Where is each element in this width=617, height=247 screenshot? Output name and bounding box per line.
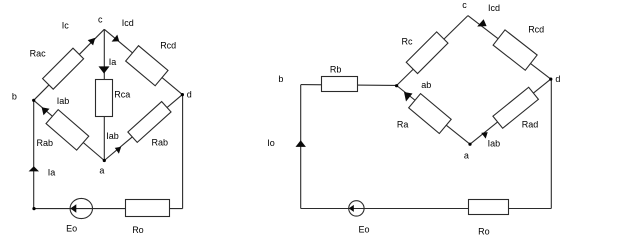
svg-text:Iab: Iab bbox=[488, 139, 501, 149]
current arrow Icd (right) bbox=[477, 19, 486, 26]
current arrow ab (near node ab, up-left) bbox=[404, 92, 413, 102]
wire b to bottom-left corner (left circuit) bbox=[33, 100, 35, 208]
source Eo (left) bbox=[70, 198, 92, 218]
current arrow Iab (right, near a, up-right) bbox=[481, 132, 488, 139]
svg-text:b: b bbox=[12, 92, 17, 102]
current arrow Iab (near b, up-left) bbox=[42, 107, 50, 115]
svg-text:Iab: Iab bbox=[106, 131, 119, 141]
node d (right) bbox=[549, 78, 552, 81]
svg-text:b: b bbox=[278, 74, 283, 84]
svg-text:Rad: Rad bbox=[522, 120, 539, 130]
node b (left) bbox=[32, 99, 35, 102]
wire bottom (left circuit) bbox=[34, 208, 183, 210]
svg-text:Ia: Ia bbox=[48, 167, 56, 177]
resistor Rca bbox=[96, 80, 113, 117]
resistor Rad bbox=[493, 87, 539, 128]
wire d to bottom-right corner (left circuit) bbox=[182, 95, 184, 209]
svg-text:c: c bbox=[462, 0, 467, 10]
svg-text:Rc: Rc bbox=[402, 36, 413, 46]
svg-text:Icd: Icd bbox=[488, 3, 500, 13]
svg-text:a: a bbox=[99, 166, 104, 176]
wire bottom (right circuit) bbox=[301, 208, 552, 210]
resistor Rc bbox=[406, 32, 448, 74]
junction bottom-left corner (left) bbox=[32, 207, 35, 210]
svg-text:Rcd: Rcd bbox=[528, 25, 544, 35]
node ab (right) bbox=[395, 84, 398, 87]
svg-text:Ia: Ia bbox=[109, 57, 117, 67]
resistor Rab (left lower-left arm) bbox=[46, 110, 89, 151]
resistor Rcd (left) bbox=[126, 46, 168, 86]
wire c-d (right bridge upper-right arm) bbox=[468, 16, 551, 80]
resistor Rb bbox=[322, 77, 358, 92]
wire node-c (right bridge upper-left arm) bbox=[397, 16, 468, 86]
svg-text:Eo: Eo bbox=[359, 224, 370, 234]
svg-text:Rab: Rab bbox=[152, 137, 169, 147]
svg-text:Ro: Ro bbox=[132, 225, 144, 235]
wire b corner to node ab (right circuit horizontal) bbox=[301, 84, 397, 87]
resistor Rac bbox=[43, 48, 84, 89]
svg-text:d: d bbox=[555, 74, 560, 84]
node a (right) bbox=[468, 143, 471, 146]
svg-text:d: d bbox=[187, 89, 192, 99]
svg-text:Rca: Rca bbox=[114, 89, 130, 99]
wire node-a (right bridge lower-left arm) bbox=[397, 86, 470, 145]
svg-text:Ic: Ic bbox=[62, 21, 70, 31]
wire b-c (left bridge upper-left arm) bbox=[34, 29, 105, 100]
arrow of source Eo (right) pointing left bbox=[349, 205, 354, 212]
svg-text:Rac: Rac bbox=[30, 49, 47, 59]
svg-text:a: a bbox=[464, 151, 469, 161]
wire d to bottom (right circuit) bbox=[550, 79, 552, 208]
svg-text:Io: Io bbox=[267, 138, 275, 148]
svg-text:Ro: Ro bbox=[478, 227, 490, 237]
current arrow Iab (near a, up-right) bbox=[115, 147, 121, 154]
resistor Rcd (right) bbox=[493, 30, 537, 70]
svg-text:Icd: Icd bbox=[122, 18, 134, 28]
wire left vertical (right circuit) bbox=[300, 85, 302, 209]
svg-text:ab: ab bbox=[421, 80, 431, 90]
wire a-d (left bridge lower-right arm) bbox=[104, 95, 182, 161]
current arrow Icd (left) bbox=[112, 35, 120, 42]
wire c-a (left bridge middle branch) bbox=[103, 29, 105, 160]
resistor Rab (left lower-right arm) bbox=[128, 102, 171, 143]
arrow of source Eo (left) pointing left bbox=[70, 204, 76, 212]
resistor Ra bbox=[409, 94, 452, 134]
current arrow Io (left wire, up) bbox=[296, 140, 306, 147]
wire a-d (right bridge lower-right arm) bbox=[470, 79, 551, 144]
svg-text:Eo: Eo bbox=[66, 224, 77, 234]
svg-text:Iab: Iab bbox=[57, 96, 70, 106]
wire c-d (left bridge upper-right arm) bbox=[104, 29, 182, 94]
resistor Ro (left) bbox=[126, 200, 170, 217]
current arrow Ia (left wire, up) bbox=[29, 166, 39, 171]
resistor Ro (right) bbox=[469, 200, 509, 215]
node d (left) bbox=[181, 93, 184, 96]
svg-text:Rb: Rb bbox=[330, 65, 342, 75]
source Eo (right) bbox=[349, 201, 364, 216]
node a (left) bbox=[103, 159, 106, 162]
current arrow Ic bbox=[88, 38, 96, 46]
svg-text:Ra: Ra bbox=[397, 120, 409, 130]
wire b-a (left bridge lower-left arm) bbox=[34, 100, 105, 160]
current arrow Ia (middle branch, down) bbox=[99, 66, 110, 73]
svg-text:c: c bbox=[98, 15, 103, 25]
svg-text:Rcd: Rcd bbox=[160, 40, 176, 50]
svg-text:Rab: Rab bbox=[37, 138, 54, 148]
